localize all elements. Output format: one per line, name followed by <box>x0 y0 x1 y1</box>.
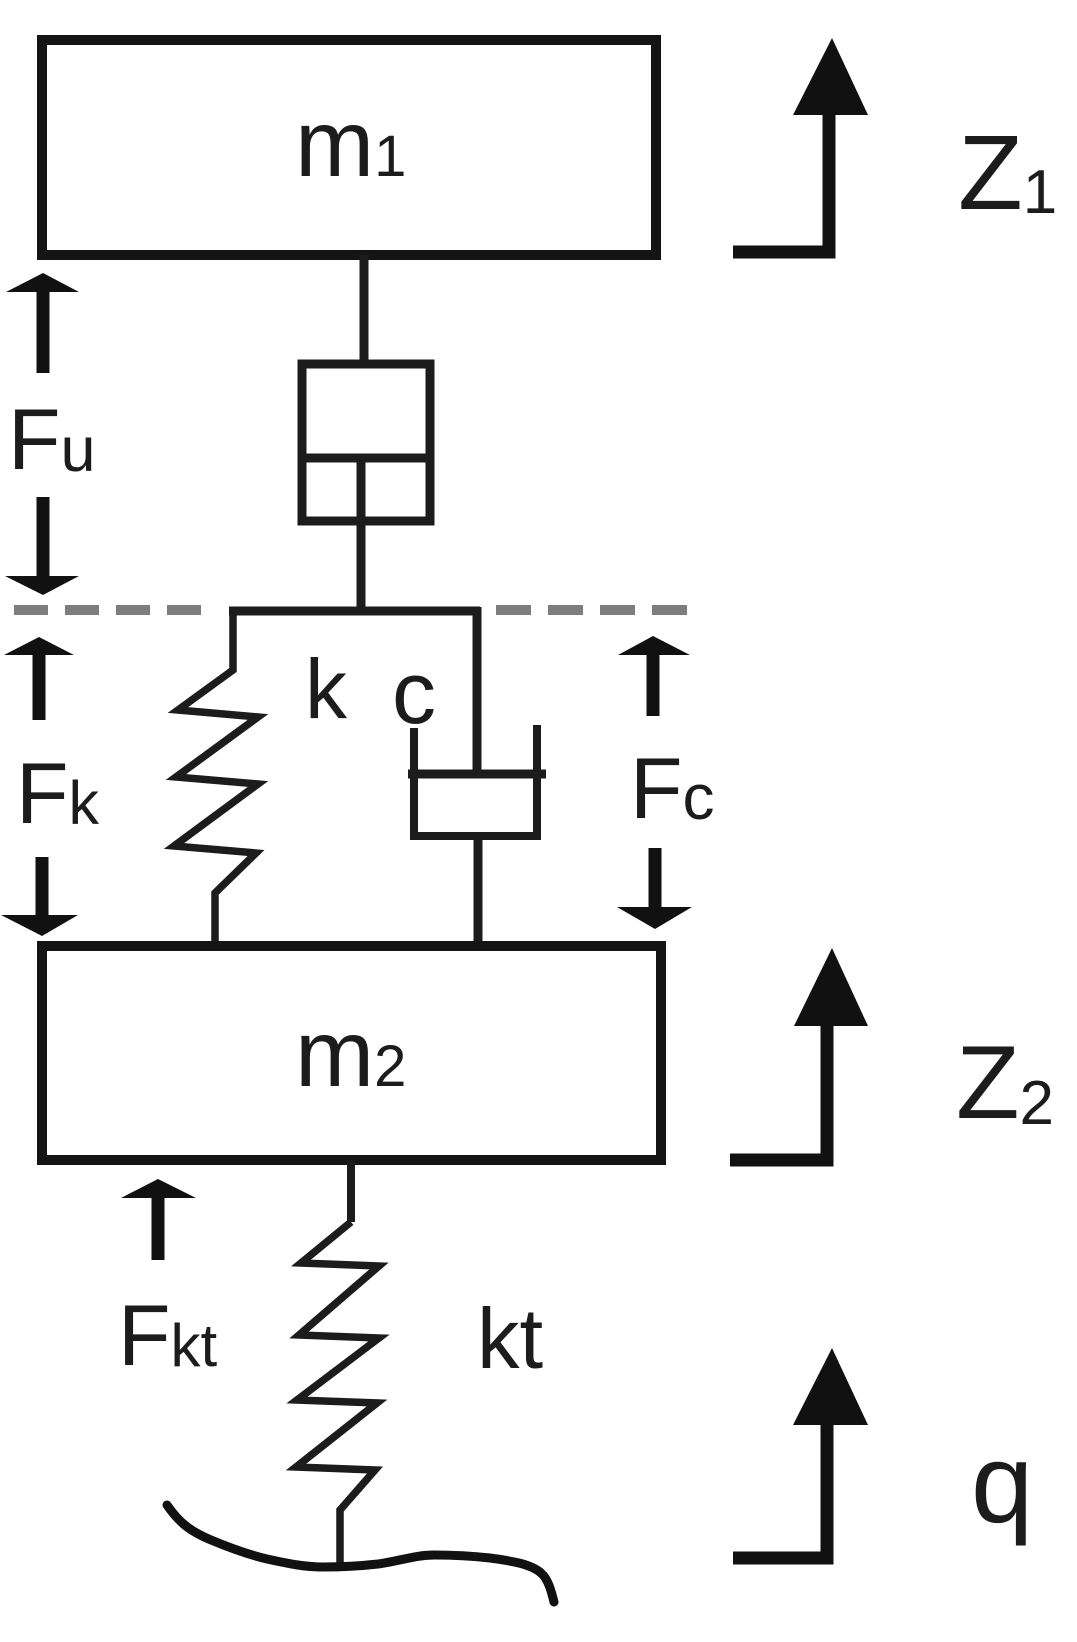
damper c rod upper <box>473 607 482 772</box>
arrow Fc down <box>649 848 662 910</box>
mass m1 box <box>42 40 656 255</box>
svg-text:kt: kt <box>477 1292 543 1387</box>
arrow Z1 <box>733 112 829 252</box>
arrow Fu down <box>37 497 50 580</box>
frame top wire <box>229 607 480 616</box>
svg-text:q: q <box>971 1421 1033 1546</box>
ground road profile squiggle <box>167 1505 554 1602</box>
mass m2 box <box>42 946 661 1160</box>
svg-text:c: c <box>392 643 436 742</box>
arrow q <box>733 1421 827 1558</box>
tire spring kt <box>296 1222 379 1566</box>
arrow Fk down <box>36 857 49 917</box>
damper c piston plate <box>408 770 546 779</box>
actuator U box <box>302 364 430 521</box>
arrow Fu up <box>37 284 50 373</box>
arrow Fk up <box>33 648 46 720</box>
arrow Fc up <box>647 646 660 716</box>
actuator piston rod <box>357 458 366 613</box>
damper c cylinder cup <box>414 725 537 836</box>
damper c rod lower <box>474 836 483 945</box>
dashed node line right <box>496 605 688 615</box>
actuator divider <box>298 454 434 463</box>
wire m1 to actuator <box>360 255 369 364</box>
spring k <box>174 611 258 945</box>
wire m2 to tire spring <box>347 1160 355 1222</box>
arrow Fkt up <box>152 1190 165 1260</box>
svg-text:k: k <box>305 642 348 736</box>
arrow Z2 <box>730 1023 827 1160</box>
dashed node line left <box>14 605 206 615</box>
